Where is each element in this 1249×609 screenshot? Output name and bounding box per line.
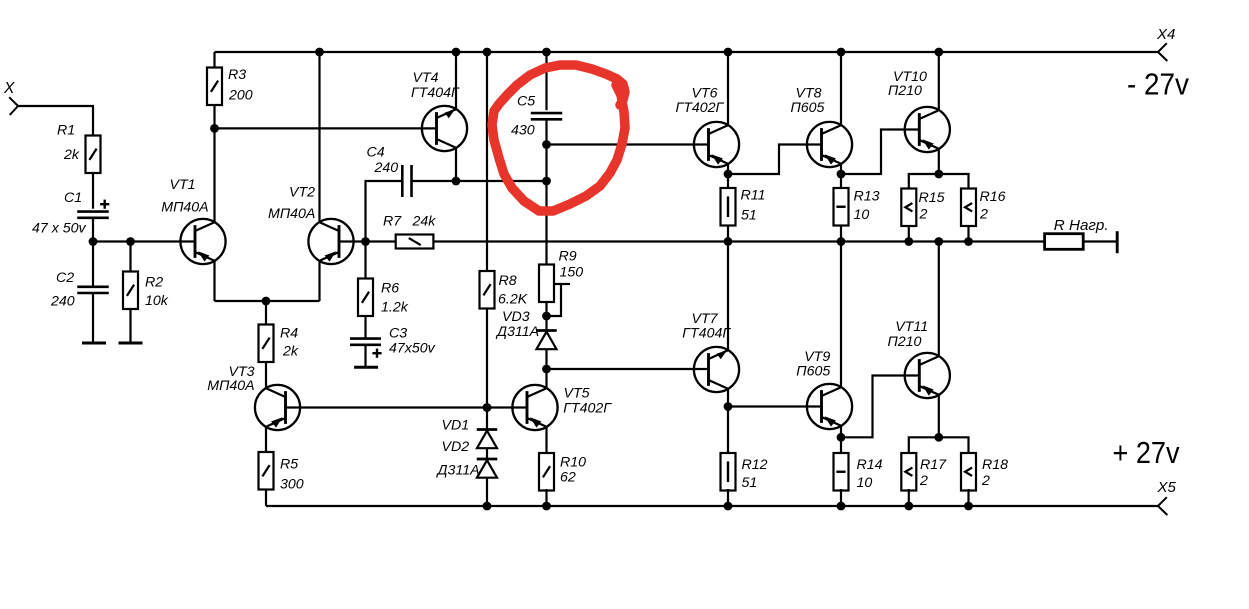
label VT5 type xyxy=(563,401,612,417)
label VD2 type xyxy=(436,463,480,479)
label R1 value xyxy=(63,147,80,163)
wire VD1 to VD2 xyxy=(486,448,488,459)
wire R9 bottom xyxy=(545,302,547,331)
node C5 column at y181 xyxy=(542,177,551,186)
label VT11 xyxy=(895,319,928,335)
node R11 on mid line xyxy=(724,237,733,246)
label VD3 xyxy=(502,309,530,325)
svg-text:ГТ404Г: ГТ404Г xyxy=(682,326,731,342)
wire to VD1 xyxy=(486,408,488,430)
label VT1 type xyxy=(161,200,208,216)
wire C2 to ground xyxy=(92,293,94,343)
ground under C2 xyxy=(82,342,106,345)
label R13 xyxy=(854,189,880,205)
label VT11 type xyxy=(888,334,922,350)
node R8 on rail xyxy=(483,48,492,57)
svg-text:R12: R12 xyxy=(742,457,768,473)
wire VT6 collector to rail xyxy=(727,52,729,126)
wire mid to VT11 collector xyxy=(938,242,940,357)
resistor R15 xyxy=(901,189,916,227)
label VT9 xyxy=(804,349,830,365)
label C1 value xyxy=(32,221,87,237)
svg-text:VT5: VT5 xyxy=(564,386,590,402)
svg-text:62: 62 xyxy=(560,470,576,486)
wire bottom +27v rail xyxy=(266,505,1158,507)
svg-text:П210: П210 xyxy=(888,334,922,350)
wire C4 to VT4 node xyxy=(412,180,457,182)
label R10 xyxy=(560,455,586,471)
node VT6 emitter xyxy=(724,170,733,179)
label R8 xyxy=(499,273,517,289)
resistor R-load xyxy=(1045,234,1084,250)
label R11 xyxy=(741,188,766,204)
wire R3 to VT1 collector xyxy=(213,105,215,223)
wire R15-R16 top bus xyxy=(909,174,969,189)
wire R6 to C3 xyxy=(364,315,366,338)
label VT10 type xyxy=(888,83,922,99)
label R16 value xyxy=(979,207,988,223)
wire R16 to mid xyxy=(967,226,969,242)
wire VT2 collector to rail xyxy=(318,52,320,223)
svg-text:C4: C4 xyxy=(367,145,385,161)
label R15 xyxy=(919,190,945,206)
resistor R8 xyxy=(480,271,495,309)
wire R8 chain from rail xyxy=(486,52,488,271)
wire VT9 collector to mid xyxy=(840,242,842,388)
label VD1 xyxy=(442,418,470,434)
node R13 on mid line xyxy=(837,237,846,246)
svg-text:R9: R9 xyxy=(559,248,577,264)
label VT2 xyxy=(289,185,315,201)
wire R11 to mid xyxy=(727,226,729,242)
wire mid line R7 to load xyxy=(433,240,1044,242)
wire load to end xyxy=(1083,240,1117,242)
label R18 xyxy=(982,457,1008,473)
terminal end bar xyxy=(1116,231,1119,253)
diode VD3 xyxy=(536,331,557,350)
wire VT7 collector to mid xyxy=(727,242,729,351)
label R9 value xyxy=(560,264,584,280)
resistor R11 xyxy=(721,188,736,226)
svg-text:R17: R17 xyxy=(920,457,947,473)
node C5 to VT6 base xyxy=(542,140,551,149)
svg-text:- 27v: - 27v xyxy=(1127,67,1189,102)
label VT5 xyxy=(564,386,590,402)
label R4 xyxy=(280,326,298,342)
svg-text:ГТ402Г: ГТ402Г xyxy=(563,401,612,417)
resistor R4 xyxy=(259,325,274,363)
svg-text:51: 51 xyxy=(742,475,758,491)
label VT3 xyxy=(229,364,255,380)
wire R18 to rail xyxy=(967,489,969,506)
label VT4 xyxy=(413,70,439,86)
node VT8 emitter xyxy=(837,170,846,179)
svg-text:430: 430 xyxy=(511,123,535,139)
wire input to R1 xyxy=(18,106,93,136)
resistor R18 xyxy=(961,453,976,491)
svg-text:VT1: VT1 xyxy=(170,177,196,193)
label VT10 xyxy=(893,69,927,85)
svg-text:R4: R4 xyxy=(280,326,298,342)
wire R3 top lead xyxy=(213,52,215,68)
node base line at VD1 xyxy=(483,403,492,412)
svg-text:10: 10 xyxy=(857,475,873,491)
svg-text:R8: R8 xyxy=(499,273,517,289)
resistor R1 xyxy=(86,136,101,174)
wire R4 to VT3 xyxy=(265,361,267,389)
wire C5 from rail xyxy=(545,52,547,110)
wire R12 to rail xyxy=(727,489,729,506)
label VT6 type xyxy=(676,100,725,116)
node R10 on rail xyxy=(542,502,551,511)
node R12 on rail xyxy=(724,502,733,511)
svg-text:X4: X4 xyxy=(1156,26,1175,43)
wire VT2 base to node xyxy=(339,240,396,242)
node VT2 collector on rail xyxy=(315,48,324,57)
label C2 xyxy=(56,270,74,286)
node R18 on rail xyxy=(964,502,973,511)
transistor VT8 xyxy=(807,122,852,167)
resistor R2 xyxy=(123,272,138,310)
label C5 value xyxy=(511,123,535,139)
red marker circle around C5 xyxy=(492,65,625,211)
label VD2 xyxy=(442,439,470,455)
wire emitter line VT1-VT2 xyxy=(215,300,320,302)
label R13 value xyxy=(854,207,870,223)
svg-text:6.2K: 6.2K xyxy=(498,292,528,308)
svg-text:R11: R11 xyxy=(741,188,766,204)
svg-text:240: 240 xyxy=(50,294,75,310)
wire VT2 emitter down xyxy=(318,261,320,301)
node R15 on mid xyxy=(904,237,913,246)
wire VT3 emitter xyxy=(265,427,267,452)
svg-text:VD2: VD2 xyxy=(442,439,470,455)
label R17 value xyxy=(919,473,928,489)
label -27v supply xyxy=(1127,67,1189,102)
resistor R3 xyxy=(207,68,222,106)
wire R13 to mid xyxy=(840,226,842,242)
wire VT4 base line xyxy=(215,127,437,129)
svg-text:R16: R16 xyxy=(980,189,1006,205)
resistor R9 xyxy=(539,265,554,303)
wire R5 to rail corner xyxy=(265,489,267,507)
wire R2 to ground xyxy=(129,309,131,343)
wire input node line xyxy=(93,240,195,242)
label VT7 type xyxy=(682,326,731,342)
node VT4 emitter junction xyxy=(452,177,461,186)
svg-text:VD3: VD3 xyxy=(502,309,530,325)
label VT8 type xyxy=(791,100,825,116)
svg-text:1.2k: 1.2k xyxy=(381,300,409,316)
wire VT7 base line xyxy=(547,368,709,370)
wire C3 to ground xyxy=(364,345,366,367)
label C3 value xyxy=(389,341,436,357)
wire VT9 emitter xyxy=(840,425,842,453)
capacitor C4 xyxy=(402,165,411,197)
label R3 xyxy=(228,67,246,83)
wire R2 top lead xyxy=(129,242,131,272)
wire R1 to C1 xyxy=(92,173,94,209)
label R16 xyxy=(980,189,1006,205)
wire R8 bottom to base line xyxy=(486,309,488,408)
wire VT6 to VT8 base xyxy=(728,145,822,175)
wire R15 to mid xyxy=(908,226,910,242)
capacitor C5 xyxy=(531,113,563,119)
svg-text:R1: R1 xyxy=(57,123,75,139)
node VT10 emitter xyxy=(934,170,943,179)
wire VT11 emitter xyxy=(938,394,940,437)
node R2 top xyxy=(126,237,135,246)
label R7 xyxy=(383,214,402,230)
resistor R5 xyxy=(259,452,274,490)
svg-text:2: 2 xyxy=(919,207,928,223)
resistor R16 xyxy=(961,189,976,227)
terminal X5 xyxy=(1158,497,1167,515)
resistor R10 xyxy=(539,453,554,491)
transistor VT7 xyxy=(694,347,739,392)
svg-text:2: 2 xyxy=(979,207,988,223)
label R12 xyxy=(742,457,768,473)
svg-text:R10: R10 xyxy=(560,455,586,471)
label C5 xyxy=(517,94,535,110)
label VT3 type xyxy=(207,378,254,394)
svg-text:R15: R15 xyxy=(919,190,945,206)
node VT10 on rail xyxy=(934,48,943,57)
label C3 xyxy=(389,326,407,342)
wire C4 line to C5 column xyxy=(456,180,547,182)
transistor VT6 xyxy=(694,122,739,167)
svg-text:R3: R3 xyxy=(228,67,246,83)
svg-text:X: X xyxy=(3,80,15,97)
label R5 xyxy=(280,457,298,473)
wire VT5 collector xyxy=(545,369,547,389)
svg-text:R18: R18 xyxy=(982,457,1008,473)
svg-text:200: 200 xyxy=(228,88,253,104)
wire R14 to rail xyxy=(840,489,842,506)
label R8 value xyxy=(498,292,528,308)
resistor R13 xyxy=(834,188,849,226)
svg-text:51: 51 xyxy=(741,208,757,224)
wire C5 down chain xyxy=(545,119,547,264)
wire VT7 emitter xyxy=(727,389,729,453)
node VT11 emitter xyxy=(934,433,943,442)
label R9 xyxy=(559,248,577,264)
wire VT7 to VT9 base xyxy=(728,405,822,407)
resistor R12 xyxy=(721,453,736,491)
wire VD3 to VT7 node xyxy=(545,349,547,369)
capacitor C3 xyxy=(350,339,382,358)
capacitor C2 xyxy=(77,287,109,293)
svg-text:300: 300 xyxy=(280,477,304,493)
svg-text:150: 150 xyxy=(560,264,584,280)
node R3 bottom / VT4 base branch xyxy=(210,124,219,133)
svg-text:2: 2 xyxy=(919,473,928,489)
svg-text:C2: C2 xyxy=(56,270,74,286)
svg-text:П210: П210 xyxy=(888,83,922,99)
wire VT8 emitter xyxy=(840,163,842,188)
node R16 on mid xyxy=(964,237,973,246)
svg-text:C1: C1 xyxy=(64,190,82,206)
wire VT5 emitter xyxy=(545,427,547,453)
svg-text:+ 27v: + 27v xyxy=(1113,435,1180,470)
node VT4 on rail xyxy=(452,48,461,57)
resistor R17 xyxy=(901,453,916,491)
svg-text:R6: R6 xyxy=(381,281,399,297)
node R17 on rail xyxy=(904,502,913,511)
svg-text:10: 10 xyxy=(854,207,870,223)
wire VT1 emitter down xyxy=(213,261,215,301)
label R6 xyxy=(381,281,399,297)
transistor VT1 xyxy=(180,219,225,264)
wire R6 top lead xyxy=(364,242,366,279)
svg-text:10k: 10k xyxy=(145,293,169,309)
svg-text:МП40А: МП40А xyxy=(161,200,208,216)
wire VT8 to VT10 base xyxy=(841,130,919,175)
wire node up to C4 xyxy=(366,181,403,242)
svg-text:VT11: VT11 xyxy=(895,319,928,335)
svg-text:МП40А: МП40А xyxy=(268,206,315,222)
svg-text:Д311А: Д311А xyxy=(495,324,539,340)
label R3 value xyxy=(228,88,253,104)
svg-text:Д311А: Д311А xyxy=(436,463,480,479)
svg-text:2: 2 xyxy=(981,473,990,489)
node VT8 on rail xyxy=(837,48,846,57)
transistor VT5 xyxy=(512,385,557,430)
label R11 value xyxy=(741,208,757,224)
node VT7 emitter xyxy=(724,402,733,411)
transistor VT2 xyxy=(308,219,353,264)
wire VT4 top lead to rail xyxy=(455,52,457,109)
wire R9 tap down xyxy=(547,284,562,316)
label R10 value xyxy=(560,470,576,486)
node VT6 on rail xyxy=(724,48,733,57)
svg-text:R5: R5 xyxy=(280,457,298,473)
wire VT10 emitter xyxy=(938,148,940,174)
node VT11 top on mid xyxy=(934,237,943,246)
svg-text:П605: П605 xyxy=(791,100,825,116)
node VT9 emitter xyxy=(837,433,846,442)
svg-text:ГТ404Г: ГТ404Г xyxy=(411,85,460,101)
ground under R2 xyxy=(119,342,143,345)
svg-text:R Нагр.: R Нагр. xyxy=(1054,217,1109,234)
terminal X4 xyxy=(1158,43,1167,61)
wire C1 to C2 xyxy=(92,218,94,287)
node VD1 top junction xyxy=(483,403,492,412)
label VT6 xyxy=(692,86,718,102)
resistor R6 xyxy=(358,279,373,317)
transistor VT10 xyxy=(905,107,950,152)
node VT2 base / R6 / C4 xyxy=(361,237,370,246)
label VT7 xyxy=(692,311,719,327)
capacitor C1 xyxy=(77,200,109,218)
node R9 bottom VD3 xyxy=(542,312,551,321)
node C5 on rail xyxy=(542,48,551,57)
wire R17-R18 top bus xyxy=(909,437,969,453)
node VD2 on bottom rail xyxy=(483,502,492,511)
label VT2 type xyxy=(268,206,315,222)
transistor VT9 xyxy=(807,384,852,429)
label R7 value xyxy=(412,214,437,230)
wire VT9 to VT11 base xyxy=(841,376,919,438)
wire R10 to rail xyxy=(545,489,547,506)
diode VD2 xyxy=(477,459,498,478)
svg-text:2k: 2k xyxy=(63,147,80,163)
svg-text:VT2: VT2 xyxy=(289,185,315,201)
label X5 xyxy=(1157,479,1177,496)
node R4 top xyxy=(262,297,271,306)
svg-text:VD1: VD1 xyxy=(442,418,470,434)
node R14 on rail xyxy=(837,502,846,511)
svg-text:П605: П605 xyxy=(796,364,830,380)
label VT8 xyxy=(796,86,822,102)
label C2 value xyxy=(50,294,75,310)
svg-text:R2: R2 xyxy=(145,275,163,291)
label X4 xyxy=(1156,26,1175,43)
wire R9 tap stub xyxy=(554,283,570,285)
svg-text:240: 240 xyxy=(374,160,399,176)
label R2 xyxy=(145,275,163,291)
node C1-C2 junction xyxy=(89,237,98,246)
label R2 value xyxy=(145,293,169,309)
label R5 value xyxy=(280,477,304,493)
svg-text:2k: 2k xyxy=(282,344,299,360)
label R12 value xyxy=(742,475,758,491)
wire VD2 to rail xyxy=(486,478,488,506)
wire VT6 base line xyxy=(547,143,709,145)
svg-text:C3: C3 xyxy=(389,326,407,342)
label VT4 type xyxy=(411,85,460,101)
label R4 value xyxy=(282,344,299,360)
label C4 value xyxy=(374,160,399,176)
label R15 value xyxy=(919,207,928,223)
wire R17 to rail xyxy=(908,489,910,506)
wire VT4 bottom lead xyxy=(455,148,457,181)
label R14 value xyxy=(857,475,873,491)
svg-text:R7: R7 xyxy=(383,214,402,230)
transistor VT4 xyxy=(422,106,467,151)
node VD3 bottom / VT7 base xyxy=(542,365,551,374)
label VD3 type xyxy=(495,324,539,340)
svg-text:47 x 50v: 47 x 50v xyxy=(32,221,87,237)
wire VT6 emitter xyxy=(727,163,729,188)
resistor R7 xyxy=(396,235,434,249)
wire VT10 collector to rail xyxy=(938,52,940,111)
wire R4 top lead xyxy=(265,301,267,325)
label R14 xyxy=(857,457,883,473)
label +27v supply xyxy=(1113,435,1180,470)
ground under C3 xyxy=(354,366,378,369)
svg-text:VT4: VT4 xyxy=(413,70,439,86)
svg-text:МП40А: МП40А xyxy=(207,378,254,394)
svg-text:ГТ402Г: ГТ402Г xyxy=(676,100,725,116)
label C1 xyxy=(64,190,82,206)
wire VT8 collector to rail xyxy=(840,52,842,126)
label C4 xyxy=(367,145,385,161)
label X xyxy=(3,80,15,97)
svg-text:X5: X5 xyxy=(1157,479,1177,496)
svg-text:R14: R14 xyxy=(857,457,883,473)
label R18 value xyxy=(981,473,990,489)
label R6 value xyxy=(381,300,409,316)
label R17 xyxy=(920,457,947,473)
svg-text:R13: R13 xyxy=(854,189,880,205)
wire VT3-VT5 base line xyxy=(286,406,528,408)
wire top -27v rail xyxy=(215,51,1159,53)
transistor VT11 xyxy=(905,353,950,398)
label VT1 xyxy=(170,177,196,193)
terminal X input xyxy=(9,97,18,115)
diode VD1 xyxy=(477,430,498,449)
